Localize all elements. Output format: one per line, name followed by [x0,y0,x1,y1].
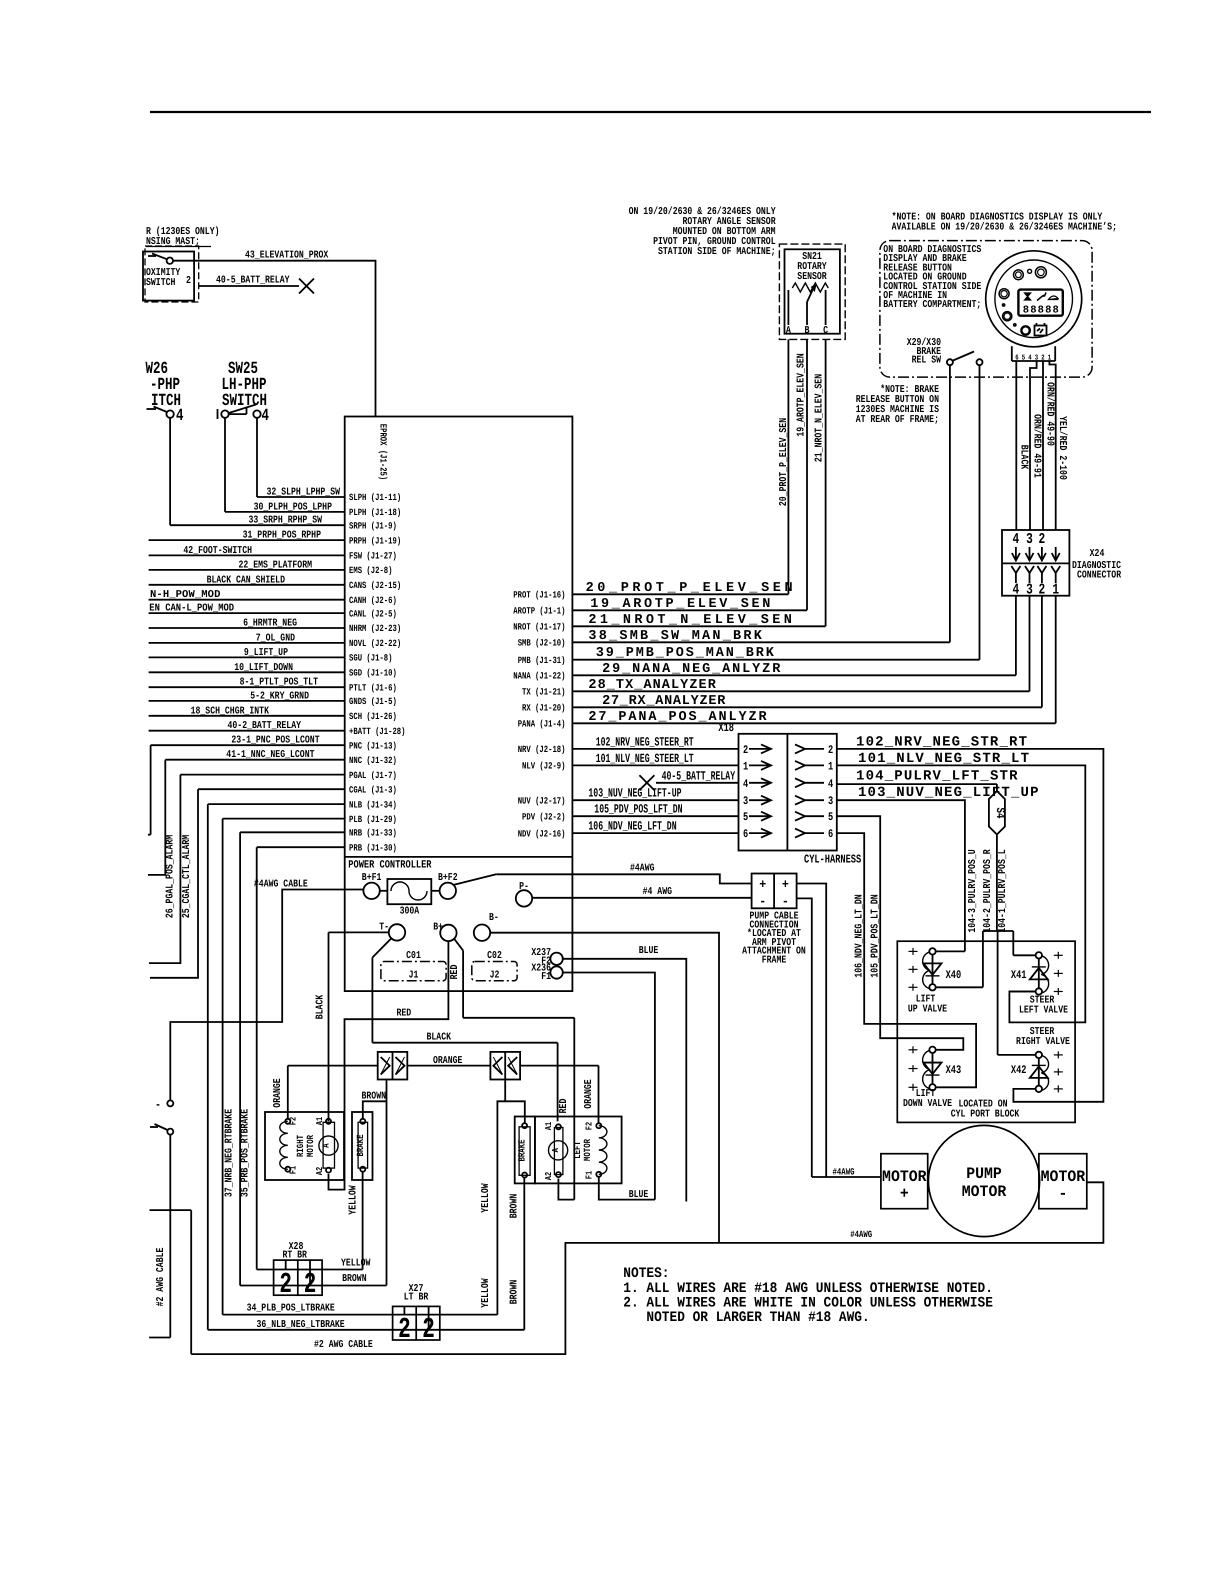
svg-text:41-1_NNC_NEG_LCONT: 41-1_NNC_NEG_LCONT [226,749,314,761]
svg-text:PGAL (J1-7): PGAL (J1-7) [349,770,397,781]
svg-text:C01: C01 [406,950,421,962]
svg-text:MOTOR: MOTOR [305,1135,316,1157]
svg-text:30_PLPH_POS_LPHP: 30_PLPH_POS_LPHP [254,501,332,513]
svg-text:UP VALVE: UP VALVE [908,1004,947,1016]
svg-text:35_PRB_POS_RTBRAKE: 35_PRB_POS_RTBRAKE [240,1109,252,1197]
svg-text:#4AWG CABLE: #4AWG CABLE [254,878,308,890]
svg-text:BRAKE: BRAKE [355,1134,366,1156]
svg-text:#4AWG: #4AWG [850,1229,872,1240]
svg-text:POWER CONTROLLER: POWER CONTROLLER [348,860,432,872]
svg-text:B-: B- [489,912,499,924]
svg-text:33_SRPH_RPHP_SW: 33_SRPH_RPHP_SW [249,515,323,527]
svg-text:A: A [786,325,792,337]
svg-text:ORN/RED 49-91: ORN/RED 49-91 [1031,414,1043,478]
svg-text:NHRM (J2-23): NHRM (J2-23) [349,623,401,634]
svg-text:NDV (J2-16): NDV (J2-16) [518,828,566,839]
svg-text:-: - [782,894,789,909]
svg-text:NNC (J1-32): NNC (J1-32) [349,755,397,766]
svg-text:BLACK: BLACK [315,994,327,1019]
svg-text:PTLT (J1-6): PTLT (J1-6) [349,682,397,693]
svg-text:A2: A2 [544,1172,554,1180]
svg-text:2. ALL WIRES ARE WHITE IN COLO: 2. ALL WIRES ARE WHITE IN COLOR UNLESS O… [623,1296,993,1312]
svg-text:+: + [782,877,789,892]
svg-text:PROT (J1-16): PROT (J1-16) [513,590,565,601]
svg-text:SGU (J1-8): SGU (J1-8) [349,653,393,664]
svg-text:F1: F1 [585,1170,595,1179]
svg-text:X40: X40 [946,969,962,982]
svg-text:X41: X41 [1011,969,1027,982]
svg-text:#4 AWG: #4 AWG [643,886,672,898]
svg-text:7_OL_GND: 7_OL_GND [256,632,295,644]
svg-text:F2: F2 [585,1122,595,1130]
svg-text:37_NRB_NEG_RTBRAKE: 37_NRB_NEG_RTBRAKE [223,1109,235,1197]
svg-text:3: 3 [1026,531,1033,548]
svg-text:9_LIFT_UP: 9_LIFT_UP [244,647,288,659]
svg-text:MOTOR: MOTOR [962,1183,1007,1201]
svg-text:#2 AWG CABLE: #2 AWG CABLE [155,1248,167,1307]
svg-text:ORANGE: ORANGE [272,1078,284,1107]
svg-text:-: - [759,894,766,909]
svg-text:42_FOOT-SWITCH: 42_FOOT-SWITCH [183,545,252,557]
svg-text:1. ALL WIRES ARE #18 AWG UNLES: 1. ALL WIRES ARE #18 AWG UNLESS OTHERWIS… [623,1281,993,1297]
svg-text:2: 2 [743,744,748,757]
svg-text:YELLOW: YELLOW [347,1185,359,1215]
svg-text:2: 2 [304,1268,317,1301]
svg-text:32_SLPH_LPHP_SW: 32_SLPH_LPHP_SW [267,487,341,499]
svg-text:NOTED OR LARGER THAN #18 AWG.: NOTED OR LARGER THAN #18 AWG. [646,1310,869,1326]
svg-text:4: 4 [743,778,748,791]
svg-text:F1: F1 [289,1165,299,1174]
svg-text:3: 3 [743,795,748,808]
svg-text:23-1_PNC_POS_LCONT: 23-1_PNC_POS_LCONT [231,735,319,747]
svg-text:RED: RED [397,1007,412,1019]
svg-text:1: 1 [743,760,748,773]
svg-text:DOWN VALVE: DOWN VALVE [903,1098,952,1110]
svg-text:J2: J2 [490,970,500,982]
svg-text:BATTERY COMPARTMENT;: BATTERY COMPARTMENT; [883,299,981,311]
svg-text:PUMP: PUMP [966,1165,1002,1183]
svg-text:102_NRV_NEG_STEER_RT: 102_NRV_NEG_STEER_RT [596,735,694,749]
svg-text:YEL/RED 2-100: YEL/RED 2-100 [1056,416,1068,480]
svg-text:4: 4 [262,407,270,426]
svg-text:18_SCH_CHGR_INTK: 18_SCH_CHGR_INTK [191,705,270,717]
svg-text:X18: X18 [718,721,734,735]
svg-text:34_PLB_POS_LTBRAKE: 34_PLB_POS_LTBRAKE [247,1303,335,1315]
svg-text:3: 3 [828,795,833,808]
svg-text:ORN/RED 49-90: ORN/RED 49-90 [1043,382,1055,446]
svg-text:1: 1 [828,760,833,773]
svg-text:EPROX (J1-25): EPROX (J1-25) [378,424,389,481]
svg-text:A: A [322,1143,332,1148]
svg-text:5: 5 [743,811,748,824]
svg-text:A1: A1 [544,1121,554,1130]
svg-text:CANH (J2-6): CANH (J2-6) [349,595,397,606]
svg-text:FRAME: FRAME [762,955,787,967]
svg-text:43_ELEVATION_PROX: 43_ELEVATION_PROX [245,250,329,262]
svg-text:10_LIFT_DOWN: 10_LIFT_DOWN [234,662,293,674]
svg-text:BLUE: BLUE [639,945,659,957]
svg-text:4: 4 [176,407,184,426]
svg-text:+: + [759,877,766,892]
svg-text:AT REAR OF FRAME;: AT REAR OF FRAME; [856,414,939,426]
svg-text:5: 5 [1022,355,1026,363]
svg-text:PMB (J1-31): PMB (J1-31) [518,655,566,666]
svg-text:SWITCH: SWITCH [146,277,175,289]
svg-text:LEFT VALVE: LEFT VALVE [1019,1005,1068,1017]
svg-text:C02: C02 [487,950,502,962]
svg-text:PRPH (J1-19): PRPH (J1-19) [349,535,401,546]
svg-text:21_NROT_N_ELEV_SEN: 21_NROT_N_ELEV_SEN [814,374,826,462]
svg-text:31_PRPH_POS_RPHP: 31_PRPH_POS_RPHP [243,530,321,542]
svg-text:B: B [805,325,811,337]
svg-text:BROWN: BROWN [342,1273,367,1285]
svg-text:#2 AWG CABLE: #2 AWG CABLE [314,1339,373,1351]
svg-text:6: 6 [828,828,833,841]
svg-text:BROWN: BROWN [509,1194,521,1219]
svg-text:SENSOR: SENSOR [797,271,827,283]
svg-text:SMB (J2-10): SMB (J2-10) [518,638,566,649]
svg-text:2: 2 [828,744,833,757]
svg-text:NLV (J2-9): NLV (J2-9) [522,761,566,772]
svg-text:103_NUV_NEG_LIFT_UP: 103_NUV_NEG_LIFT_UP [858,785,1039,801]
svg-text:N-H_POW_MOD: N-H_POW_MOD [150,589,220,601]
svg-text:NUV (J2-17): NUV (J2-17) [518,795,566,806]
svg-text:AROTP (J1-1): AROTP (J1-1) [513,606,565,617]
svg-text:-: - [155,1098,161,1112]
svg-text:29_NANA_NEG_ANLYZR: 29_NANA_NEG_ANLYZR [602,662,781,677]
svg-text:MOTOR: MOTOR [582,1139,593,1161]
svg-text:40-5_BATT_RELAY: 40-5_BATT_RELAY [662,769,736,783]
svg-text:RIGHT VALVE: RIGHT VALVE [1016,1036,1070,1048]
svg-text:REL SW: REL SW [912,355,942,367]
svg-text:26_PGAL_POS_ALARM: 26_PGAL_POS_ALARM [165,835,177,918]
svg-text:28_TX_ANALYZER: 28_TX_ANALYZER [588,678,716,693]
svg-text:19_AROTP_ELEV_SEN: 19_AROTP_ELEV_SEN [590,597,770,612]
svg-text:NOTES:: NOTES: [623,1266,669,1282]
svg-text:NRV (J2-18): NRV (J2-18) [518,744,566,755]
svg-text:CANL (J2-5): CANL (J2-5) [349,608,397,619]
svg-text:SLPH (J1-11): SLPH (J1-11) [349,492,401,503]
svg-text:2: 2 [186,275,191,287]
svg-text:YELLOW: YELLOW [341,1257,371,1269]
svg-text:LT BR: LT BR [404,1292,429,1304]
svg-text:106_NDV_NEG_LT_DN: 106_NDV_NEG_LT_DN [854,894,866,977]
svg-text:MOTOR: MOTOR [882,1168,927,1186]
svg-text:NOVL (J2-22): NOVL (J2-22) [349,638,401,649]
svg-text:5: 5 [828,811,833,824]
svg-text:PANA (J1-4): PANA (J1-4) [518,719,566,730]
svg-text:25_CGAL_CTL_ALARM: 25_CGAL_CTL_ALARM [181,835,193,918]
svg-text:AVAILABLE ON 19/20/2630 & 26/3: AVAILABLE ON 19/20/2630 & 26/3246ES MACH… [892,222,1117,234]
svg-text:104-1_PULRV_POS_L: 104-1_PULRV_POS_L [997,849,1009,932]
svg-text:4: 4 [1028,355,1032,363]
svg-text:BRAKE: BRAKE [517,1139,528,1161]
svg-text:103_NUV_NEG_LIFT-UP: 103_NUV_NEG_LIFT-UP [588,787,681,801]
svg-text:5-2_KRY_GRND: 5-2_KRY_GRND [250,690,309,702]
svg-text:TX (J1-21): TX (J1-21) [522,687,566,698]
svg-text:CYL PORT BLOCK: CYL PORT BLOCK [951,1109,1020,1121]
svg-text:-: - [1058,1185,1067,1203]
svg-text:NRB (J1-33): NRB (J1-33) [349,828,397,839]
svg-text:40-5_BATT_RELAY: 40-5_BATT_RELAY [216,275,290,287]
svg-text:RED: RED [449,965,461,980]
svg-text:PNC (J1-13): PNC (J1-13) [349,740,397,751]
svg-text:300A: 300A [400,906,420,918]
svg-text:PRB (J1-30): PRB (J1-30) [349,842,397,853]
svg-text:NLB (J1-34): NLB (J1-34) [349,799,397,810]
svg-text:20_PROT_P_ELEV_SEN: 20_PROT_P_ELEV_SEN [778,418,790,506]
svg-text:SRPH (J1-9): SRPH (J1-9) [349,520,397,531]
svg-text:88888: 88888 [1023,305,1059,317]
svg-text:4: 4 [1013,531,1020,548]
svg-text:EN CAN-L_POW_MOD: EN CAN-L_POW_MOD [149,603,234,615]
svg-text:27_PANA_POS_ANLYZR: 27_PANA_POS_ANLYZR [588,710,767,725]
svg-text:#4AWG: #4AWG [833,1167,855,1178]
svg-text:YELLOW: YELLOW [480,1183,492,1213]
svg-text:22_EMS_PLATFORM: 22_EMS_PLATFORM [239,559,313,571]
svg-text:J1: J1 [409,970,419,982]
svg-text:+: + [900,1185,909,1203]
svg-text:40-2_BATT_RELAY: 40-2_BATT_RELAY [228,720,302,732]
svg-text:38_SMB_SW_MAN_BRK: 38_SMB_SW_MAN_BRK [588,629,762,644]
svg-text:104_PULRV_LFT_STR: 104_PULRV_LFT_STR [856,769,1018,785]
svg-text:X43: X43 [946,1064,962,1077]
svg-text:8-1_PTLT_POS_TLT: 8-1_PTLT_POS_TLT [240,677,318,689]
svg-text:105_PDV_POS_LFT_DN: 105_PDV_POS_LFT_DN [594,803,682,817]
svg-text:BROWN: BROWN [509,1280,521,1305]
svg-text:FSW (J1-27): FSW (J1-27) [349,551,397,562]
svg-text:CGAL (J1-3): CGAL (J1-3) [349,784,397,795]
svg-text:BLACK: BLACK [1018,445,1030,470]
svg-text:PLB (J1-29): PLB (J1-29) [349,814,397,825]
svg-text:4: 4 [828,778,833,791]
svg-text:6_HRMTR_NEG: 6_HRMTR_NEG [243,618,297,630]
svg-text:27_RX_ANALYZER: 27_RX_ANALYZER [602,694,726,709]
svg-text:NANA (J1-22): NANA (J1-22) [513,671,565,682]
svg-text:F2: F2 [289,1117,299,1125]
svg-text:101_NLV_NEG_STEER_LT: 101_NLV_NEG_STEER_LT [596,752,694,766]
svg-text:S4: S4 [993,808,1007,819]
svg-text:RED: RED [558,1099,570,1114]
svg-text:EMS (J2-8): EMS (J2-8) [349,565,393,576]
svg-text:PDV (J2-2): PDV (J2-2) [522,811,566,822]
svg-text:#4AWG: #4AWG [630,862,655,874]
svg-text:ORANGE: ORANGE [583,1079,595,1108]
svg-text:SCH (J1-26): SCH (J1-26) [349,711,397,722]
svg-text:X24: X24 [1090,548,1105,560]
svg-text:106_NDV_NEG_LFT_DN: 106_NDV_NEG_LFT_DN [588,820,676,834]
svg-text:NROT (J1-17): NROT (J1-17) [513,622,565,633]
svg-text:RX (J1-20): RX (J1-20) [522,703,566,714]
svg-text:105_PDV_POS_LT_DN: 105_PDV_POS_LT_DN [870,894,882,977]
svg-text:CANS (J2-15): CANS (J2-15) [349,580,401,591]
svg-text:104-3_PULRV_POS_U: 104-3_PULRV_POS_U [967,849,979,932]
svg-text:2: 2 [1039,531,1046,548]
svg-text:104-2_PULRV_POS_R: 104-2_PULRV_POS_R [982,849,994,933]
svg-text:+BATT (J1-28): +BATT (J1-28) [349,726,406,737]
svg-text:GNDS (J1-5): GNDS (J1-5) [349,696,397,707]
svg-text:STATION SIDE OF MACHINE;: STATION SIDE OF MACHINE; [658,246,776,258]
svg-text:39_PMB_POS_MAN_BRK: 39_PMB_POS_MAN_BRK [596,646,775,661]
svg-text:C: C [823,325,829,337]
svg-text:X42: X42 [1011,1064,1027,1077]
svg-text:SGD (J1-10): SGD (J1-10) [349,668,397,679]
svg-text:6: 6 [743,828,748,841]
svg-text:A: A [551,1148,561,1153]
svg-text:CYL-HARNESS: CYL-HARNESS [804,853,861,867]
svg-text:YELLOW: YELLOW [480,1278,492,1308]
svg-text:PLPH (J1-18): PLPH (J1-18) [349,507,401,518]
svg-text:2: 2 [279,1268,292,1301]
svg-text:CONNECTOR: CONNECTOR [1077,570,1122,582]
svg-text:19_AROTP_ELEV_SEN: 19_AROTP_ELEV_SEN [796,353,808,436]
svg-text:MOTOR: MOTOR [1041,1168,1086,1186]
svg-text:BLACK CAN_SHIELD: BLACK CAN_SHIELD [207,574,285,586]
